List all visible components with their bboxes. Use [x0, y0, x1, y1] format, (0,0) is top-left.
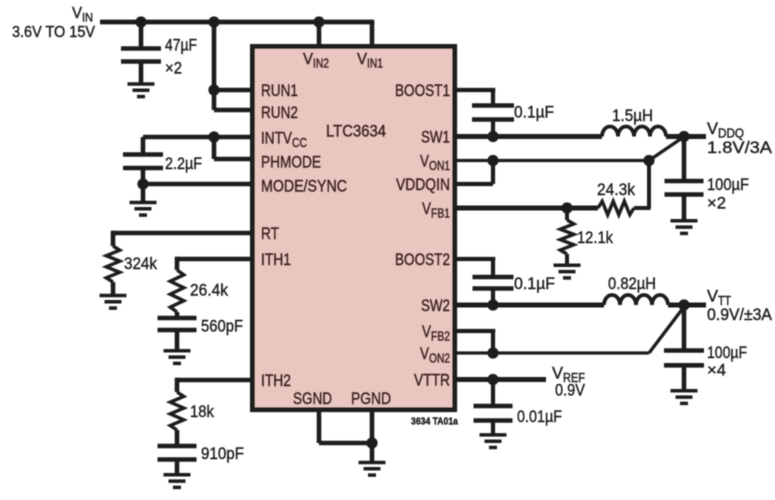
svg-text:V: V — [357, 51, 367, 68]
wire 2.2uF top lead — [141, 137, 146, 154]
svg-text:RT: RT — [261, 224, 279, 243]
wire 100uF-2 gnd lead — [682, 367, 687, 390]
svg-text:IN: IN — [82, 13, 93, 25]
svg-text:×2: ×2 — [707, 194, 726, 213]
svg-text:RUN1: RUN1 — [261, 81, 298, 100]
ground under 47uF — [128, 82, 155, 86]
svg-text:18k: 18k — [190, 402, 214, 421]
svg-text:LTC3634: LTC3634 — [326, 122, 386, 141]
svg-text:IN1: IN1 — [367, 57, 383, 71]
ground under 324k — [100, 294, 127, 298]
wire VTT output stub — [684, 303, 706, 308]
svg-text:VDDQIN: VDDQIN — [396, 175, 450, 194]
svg-text:26.4k: 26.4k — [190, 281, 228, 300]
node junction SW2-cap — [487, 299, 498, 310]
wire VON2 run — [455, 351, 649, 354]
wire RUN1 — [214, 88, 252, 93]
wire inductor to VDDQ node — [666, 134, 684, 139]
wire PHMODE drop — [212, 137, 217, 159]
wire ITH1 drop — [175, 257, 180, 270]
capacitor C 560pF — [158, 316, 197, 321]
ground under PGND — [359, 461, 386, 465]
svg-text:1.8V/3A: 1.8V/3A — [707, 138, 773, 157]
wire 24.3k to riser — [634, 206, 651, 210]
ground under 910pF — [164, 473, 191, 477]
wire INTVCC — [143, 135, 252, 140]
wire 560pF gnd lead — [175, 331, 180, 350]
svg-text:BOOST2: BOOST2 — [395, 250, 450, 269]
svg-text:PGND: PGND — [351, 389, 391, 408]
svg-text:100µF: 100µF — [707, 343, 747, 362]
node junction VIN-VIN2 — [313, 16, 324, 27]
node junction VON1-VDDQIN — [487, 155, 498, 166]
wire gnd lead 2.2uF — [141, 184, 146, 201]
wire diagonal VON2 to VTT node — [649, 306, 685, 354]
capacitor C 100uF x2 — [665, 179, 704, 184]
capacitor C 47uF x2 — [121, 46, 161, 51]
wire 2.2uF bottom lead — [141, 169, 146, 184]
svg-text:0.9V: 0.9V — [555, 381, 586, 400]
resistor R 12.1k — [560, 220, 574, 254]
capacitor C 0.01uF — [474, 404, 513, 409]
svg-text:ITH1: ITH1 — [261, 250, 291, 269]
wire VFB2 drop — [491, 331, 495, 353]
wire ITH2 drop — [175, 378, 180, 392]
wire VON1 run — [455, 159, 649, 162]
svg-text:0.9V/±3A: 0.9V/±3A — [707, 305, 773, 324]
wire 47uF top lead — [139, 22, 144, 48]
svg-text:324k: 324k — [124, 254, 157, 273]
wire BOOST1 — [455, 88, 495, 92]
ground under 560pF — [164, 349, 191, 353]
svg-text:×2: ×2 — [165, 59, 182, 78]
wire PGND drop — [370, 410, 375, 443]
svg-text:SGND: SGND — [293, 389, 332, 408]
resistor R 18k — [170, 392, 184, 430]
wire VFB2 — [455, 329, 495, 333]
wire VDDQ output stub — [684, 134, 706, 139]
inductor L 0.82uH — [604, 295, 668, 305]
capacitor C 0.1uF boost2 — [473, 275, 514, 280]
ground under 0.01uF — [480, 433, 507, 437]
svg-text:0.82µH: 0.82µH — [608, 274, 656, 293]
resistor R 324k — [106, 246, 120, 282]
svg-text:V: V — [707, 287, 719, 306]
wire 910pF gnd lead — [175, 461, 180, 475]
wire VIN1 drop — [370, 22, 375, 46]
svg-text:SW1: SW1 — [421, 128, 450, 147]
node junction RUN1 — [208, 84, 219, 95]
svg-text:3.6V TO 15V: 3.6V TO 15V — [12, 24, 96, 41]
node junction VIN-cap — [135, 16, 146, 27]
capacitor C 2.2uF — [123, 152, 163, 157]
wire VTTR — [455, 377, 546, 382]
svg-text:24.3k: 24.3k — [597, 180, 635, 199]
wire SGND drop — [317, 410, 322, 443]
wire VIN2 drop — [317, 22, 322, 46]
svg-text:FB1: FB1 — [431, 207, 450, 221]
wire RUN drop — [212, 22, 217, 110]
wire ITH2 — [177, 378, 252, 383]
svg-text:0.1µF: 0.1µF — [514, 103, 554, 122]
wire ITH1 — [177, 257, 252, 262]
svg-text:RUN2: RUN2 — [261, 103, 298, 122]
svg-text:PHMODE: PHMODE — [261, 153, 321, 172]
svg-text:IN2: IN2 — [313, 57, 329, 71]
wire feedback riser — [647, 161, 651, 209]
node junction VON1-feedback — [643, 155, 654, 166]
wire SW2 to inductor — [455, 303, 604, 308]
svg-text:INTV: INTV — [261, 129, 293, 148]
wire 47uF bottom lead — [139, 63, 144, 83]
wire 0.1uF2 to SW2 — [491, 290, 495, 305]
wire VDDQ cap lead — [682, 137, 687, 181]
ground under 2.2uF — [130, 201, 157, 205]
wire 26.4k to 560pF — [175, 312, 180, 317]
svg-text:47µF: 47µF — [165, 36, 197, 55]
svg-text:SW2: SW2 — [421, 296, 450, 315]
svg-text:ON2: ON2 — [429, 352, 450, 366]
wire RUN2 — [214, 108, 252, 113]
wire 0.1uF to SW1 — [491, 121, 495, 137]
svg-text:0.1µF: 0.1µF — [514, 274, 555, 293]
ground under 100uF x4 — [671, 389, 698, 393]
node VTT output node — [678, 299, 689, 310]
wire VDDQIN riser — [491, 161, 495, 185]
node junction INTVCC — [208, 131, 219, 142]
svg-text:V: V — [303, 51, 313, 68]
wire VFB1 — [455, 206, 598, 211]
wire 0.01uF gnd lead — [491, 422, 495, 434]
ground under 100uF x2 — [671, 219, 698, 223]
wire 0.01uF top lead — [491, 380, 495, 405]
inductor L 1.5uH — [602, 127, 666, 137]
node junction PGND — [366, 437, 377, 448]
IC U1 LTC3634 — [252, 46, 454, 410]
node junction VON2-VFB2 — [487, 347, 498, 358]
svg-text:×4: ×4 — [707, 361, 726, 380]
wire PHMODE — [214, 157, 252, 162]
wire BOOST2 cap drop — [491, 259, 495, 275]
svg-text:12.1k: 12.1k — [577, 228, 613, 247]
wire VDDQIN — [455, 182, 493, 186]
wire PGND gnd lead — [370, 443, 375, 461]
svg-text:910pF: 910pF — [201, 444, 244, 463]
resistor R 26.4k — [170, 270, 184, 312]
wire 12.1k top lead — [565, 208, 569, 220]
node junction SW1-cap — [487, 131, 498, 142]
svg-text:V: V — [707, 119, 719, 138]
capacitor C 100uF x4 — [664, 348, 704, 353]
svg-text:1.5µH: 1.5µH — [612, 106, 653, 125]
wire SGND-PGND link — [319, 441, 372, 446]
capacitor C 0.1uF boost1 — [472, 103, 514, 108]
wire SW1 to inductor — [455, 134, 602, 139]
wire 100uF-1 gnd lead — [682, 196, 687, 220]
wire MODE/SYNC — [143, 182, 252, 187]
capacitor C 910pF — [158, 444, 197, 449]
ground under 12.1k — [554, 264, 581, 268]
wire 18k to 910pF — [175, 430, 180, 445]
node junction VFB1-12.1k — [561, 202, 572, 213]
wire BOOST1 cap drop — [491, 90, 495, 104]
wire RT — [113, 231, 252, 236]
wire BOOST2 — [455, 257, 495, 261]
node junction MODE/SYNC-gnd — [137, 178, 148, 189]
svg-text:100µF: 100µF — [707, 175, 749, 194]
svg-text:0.01µF: 0.01µF — [517, 407, 562, 426]
svg-text:2.2µF: 2.2µF — [165, 154, 202, 173]
svg-text:BOOST1: BOOST1 — [395, 81, 450, 100]
svg-text:CC: CC — [292, 136, 307, 150]
wire 324k gnd lead — [111, 282, 116, 294]
resistor R 24.3k — [598, 201, 634, 215]
svg-text:560pF: 560pF — [201, 317, 243, 336]
wire VTT cap lead — [682, 305, 687, 349]
wire 12.1k gnd lead — [565, 254, 569, 264]
svg-text:ITH2: ITH2 — [261, 371, 291, 390]
svg-text:ON1: ON1 — [429, 159, 450, 173]
wire RT drop — [111, 231, 116, 246]
node VDDQ output node — [678, 131, 689, 142]
wire VIN main rail — [100, 20, 374, 25]
wire diagonal VON1 to VDDQ node — [649, 136, 685, 161]
svg-text:MODE/SYNC: MODE/SYNC — [261, 177, 347, 196]
node junction VTTR-cap — [487, 374, 498, 385]
wire inductor2 to VTT node — [668, 303, 684, 308]
svg-text:FB2: FB2 — [431, 330, 450, 344]
node junction VIN-RUN — [208, 16, 219, 27]
svg-text:VTTR: VTTR — [414, 371, 450, 390]
svg-text:3634 TA01a: 3634 TA01a — [411, 416, 458, 428]
